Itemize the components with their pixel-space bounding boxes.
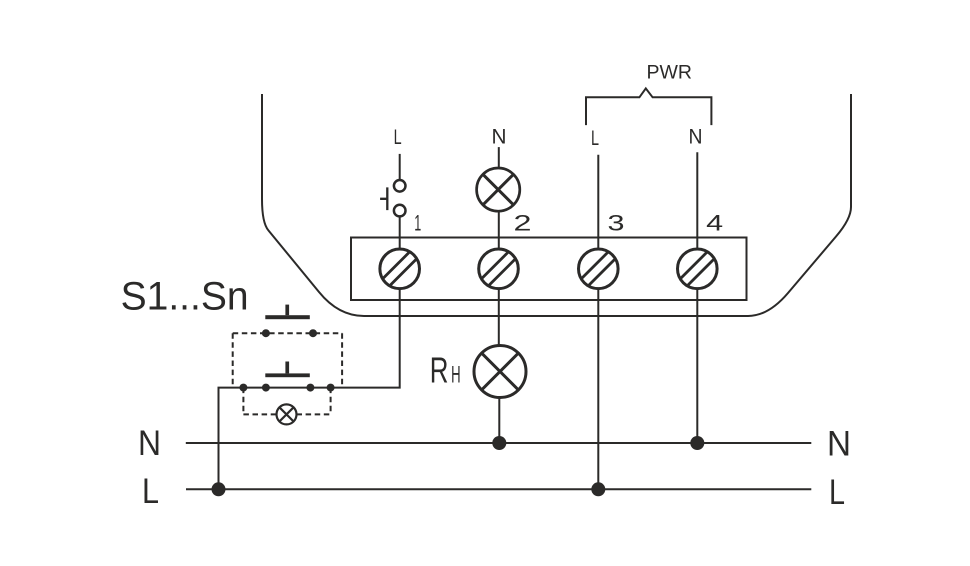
svg-text:4: 4 [706, 211, 723, 236]
svg-text:3: 3 [608, 211, 625, 236]
svg-text:PWR: PWR [647, 63, 693, 84]
svg-text:N: N [689, 126, 703, 149]
svg-text:2: 2 [514, 211, 532, 236]
svg-text:L: L [591, 127, 599, 150]
svg-text:L: L [142, 471, 159, 511]
svg-text:N: N [138, 423, 161, 463]
svg-text:1: 1 [414, 211, 421, 236]
svg-text:L: L [829, 472, 845, 512]
svg-text:L: L [394, 126, 402, 149]
svg-text:H: H [451, 362, 461, 389]
svg-text:N: N [492, 126, 507, 149]
svg-text:N: N [827, 424, 851, 464]
svg-text:R: R [430, 350, 449, 391]
svg-text:S1...Sn: S1...Sn [121, 275, 249, 319]
